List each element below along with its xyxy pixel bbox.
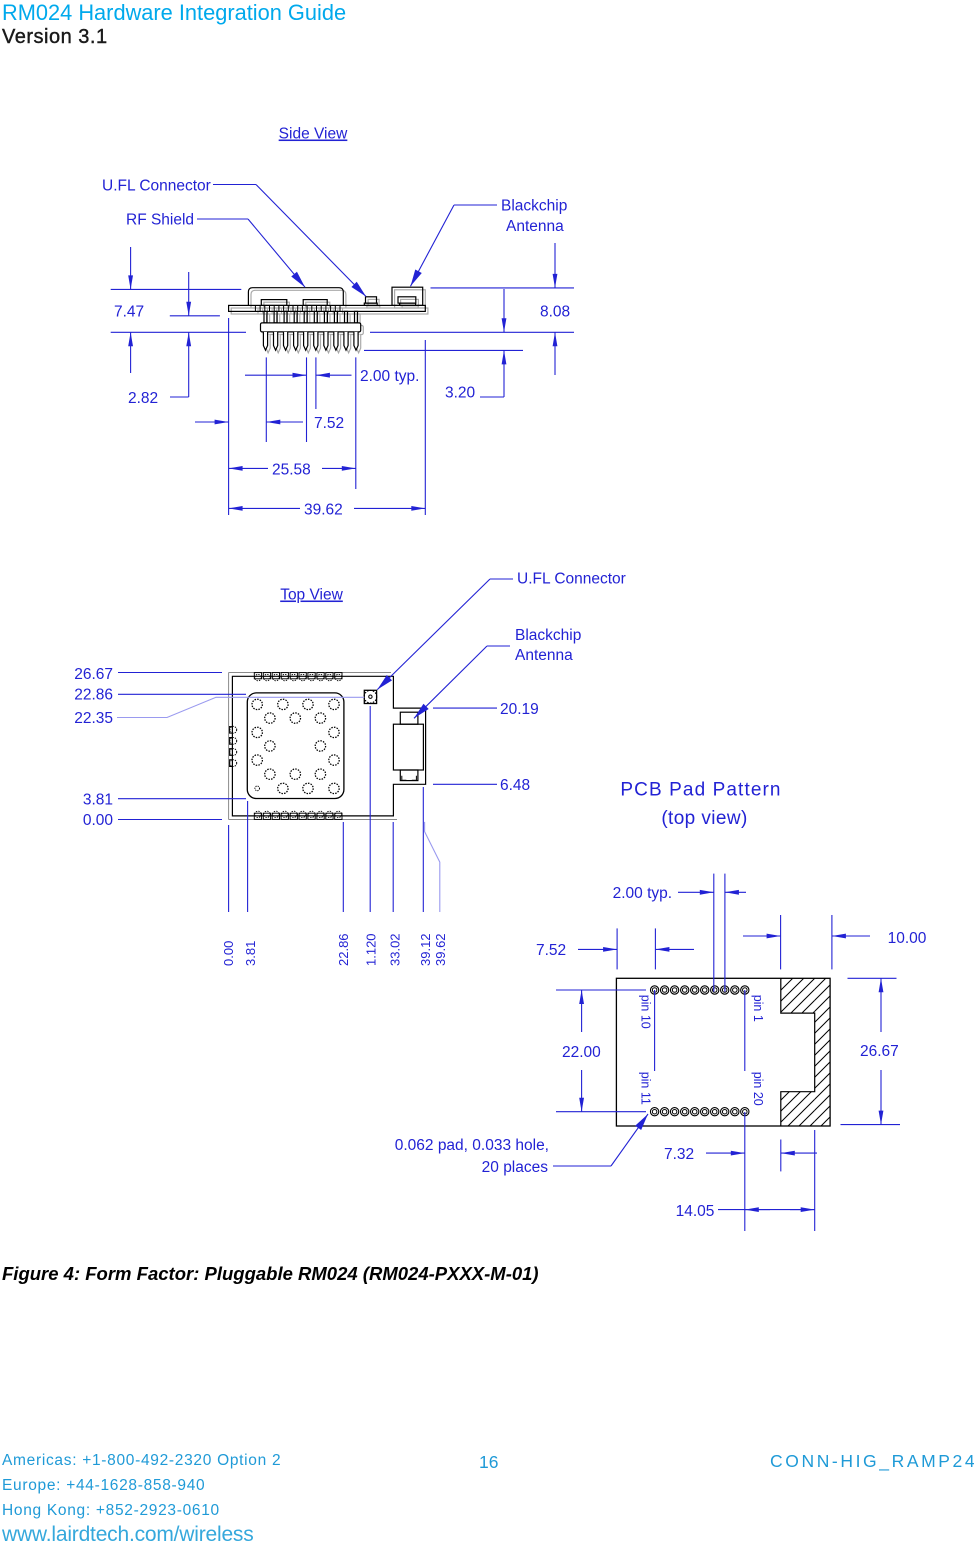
svg-text:39.62: 39.62	[304, 502, 343, 519]
svg-text:0.062 pad, 0.033 hole,: 0.062 pad, 0.033 hole,	[395, 1137, 549, 1154]
svg-text:pin 1: pin 1	[751, 995, 765, 1022]
svg-text:pin 20: pin 20	[751, 1072, 765, 1106]
svg-text:PCB Pad Pattern: PCB Pad Pattern	[620, 780, 781, 801]
svg-text:8.08: 8.08	[540, 304, 570, 321]
svg-text:Top View: Top View	[280, 587, 343, 604]
svg-text:pin 10: pin 10	[639, 995, 653, 1029]
svg-text:Antenna: Antenna	[515, 647, 573, 664]
svg-text:7.32: 7.32	[664, 1146, 694, 1163]
svg-text:22.35: 22.35	[74, 710, 113, 727]
svg-text:6.48: 6.48	[500, 777, 530, 794]
svg-text:20.19: 20.19	[500, 701, 539, 718]
svg-text:Blackchip: Blackchip	[501, 198, 567, 215]
svg-text:39.12: 39.12	[418, 933, 433, 966]
svg-text:1.120: 1.120	[364, 933, 379, 966]
svg-text:33.02: 33.02	[387, 933, 402, 966]
svg-text:7.52: 7.52	[314, 415, 344, 432]
svg-text:(top view): (top view)	[661, 808, 747, 829]
svg-text:U.FL Connector: U.FL Connector	[102, 178, 211, 195]
svg-text:3.20: 3.20	[445, 385, 476, 402]
svg-text:U.FL Connector: U.FL Connector	[517, 571, 626, 588]
svg-text:25.58: 25.58	[272, 462, 311, 479]
svg-text:3.81: 3.81	[243, 941, 258, 966]
svg-text:20 places: 20 places	[482, 1159, 549, 1176]
svg-text:22.86: 22.86	[336, 933, 351, 966]
svg-text:7.47: 7.47	[114, 304, 144, 321]
svg-text:0.00: 0.00	[83, 812, 114, 829]
svg-text:3.81: 3.81	[83, 792, 113, 809]
svg-text:0.00: 0.00	[221, 941, 236, 966]
svg-text:RF Shield: RF Shield	[126, 212, 194, 229]
svg-text:22.86: 22.86	[74, 687, 113, 704]
svg-text:7.52: 7.52	[536, 942, 566, 959]
svg-text:2.00 typ.: 2.00 typ.	[613, 885, 672, 902]
svg-text:39.62: 39.62	[433, 933, 448, 966]
svg-text:Side View: Side View	[279, 126, 348, 143]
svg-text:2.82: 2.82	[128, 390, 158, 407]
svg-text:Blackchip: Blackchip	[515, 627, 581, 644]
svg-text:26.67: 26.67	[74, 666, 113, 683]
svg-text:2.00 typ.: 2.00 typ.	[360, 368, 419, 385]
svg-text:26.67: 26.67	[860, 1043, 899, 1060]
svg-text:pin 11: pin 11	[639, 1072, 653, 1105]
svg-text:Antenna: Antenna	[506, 218, 564, 235]
svg-text:10.00: 10.00	[888, 930, 927, 947]
svg-text:22.00: 22.00	[562, 1044, 601, 1061]
svg-text:14.05: 14.05	[676, 1203, 715, 1220]
